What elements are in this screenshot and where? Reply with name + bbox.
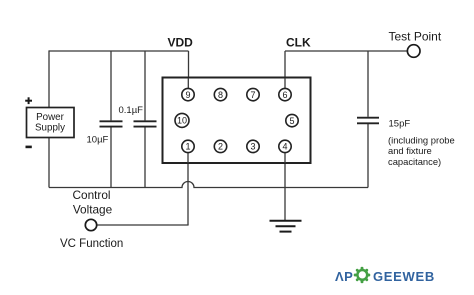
svg-text:2: 2 <box>218 142 223 152</box>
wire left drop to power supply <box>48 50 50 107</box>
label Control Voltage <box>72 188 112 217</box>
node VC terminal <box>85 219 96 230</box>
pin 1 <box>182 140 194 152</box>
svg-text:8: 8 <box>218 90 223 100</box>
label + (power supply positive) <box>25 97 32 104</box>
pin 4 <box>279 140 291 152</box>
pin 5 <box>286 114 298 126</box>
svg-text:3: 3 <box>250 142 255 152</box>
pin 10 <box>175 113 189 127</box>
svg-text:(including probe: (including probe <box>388 135 455 146</box>
wire bottom ground rail with hop over pin1 wire <box>49 182 368 188</box>
wire CLK rail to test point <box>285 50 407 52</box>
label Test Point <box>389 30 442 44</box>
svg-text:15pF: 15pF <box>389 119 411 130</box>
svg-text:4: 4 <box>282 142 287 152</box>
svg-text:VC Function: VC Function <box>60 238 123 250</box>
svg-text:Voltage: Voltage <box>73 203 113 217</box>
wire C3 bottom <box>367 124 369 188</box>
label VC Function <box>60 238 123 250</box>
svg-text:GEEWEB: GEEWEB <box>373 269 435 284</box>
pin 2 <box>214 140 226 152</box>
label 0.1uF <box>119 105 144 116</box>
pin 6 <box>279 88 291 100</box>
power supply PS1 <box>27 108 75 138</box>
capacitor C2 0.1uF <box>134 121 157 126</box>
wire C1 top tap <box>110 51 112 120</box>
pin 3 <box>247 140 259 152</box>
label - (power supply negative) <box>26 146 32 149</box>
wire C2 top tap <box>144 51 146 120</box>
wire pin 1 stub inside IC <box>187 152 189 163</box>
svg-text:9: 9 <box>185 90 190 100</box>
svg-text:Supply: Supply <box>35 123 65 134</box>
wire CLK drop to pin 6 <box>284 51 286 89</box>
pin 7 <box>247 88 259 100</box>
wire pin 4 to ground <box>284 152 286 220</box>
svg-text:6: 6 <box>282 90 287 100</box>
wire C3 top tap <box>367 51 369 117</box>
label 10uF <box>87 135 109 146</box>
wire VDD drop to pin 9 <box>188 51 190 89</box>
svg-text:7: 7 <box>250 90 255 100</box>
svg-text:5: 5 <box>289 116 294 126</box>
svg-text:Control: Control <box>72 188 110 202</box>
capacitor C1 10uF <box>100 121 123 126</box>
logo apogeeweb <box>335 267 435 284</box>
ground <box>270 221 302 232</box>
svg-text:and fixture: and fixture <box>388 145 432 156</box>
svg-text:capacitance): capacitance) <box>388 156 441 167</box>
wire C1 bottom <box>110 127 112 187</box>
wire VC terminal horizontal <box>97 224 189 226</box>
pin 9 <box>182 88 194 100</box>
svg-text:CLK: CLK <box>286 36 311 50</box>
label 15pF <box>389 119 411 130</box>
svg-text:10µF: 10µF <box>87 135 109 146</box>
label CLK <box>286 36 311 50</box>
node test point terminal <box>407 45 420 58</box>
wire pin 1 to VC node <box>187 152 189 225</box>
wire C2 bottom <box>144 127 146 187</box>
svg-text:0.1µF: 0.1µF <box>119 105 144 116</box>
svg-text:1: 1 <box>185 142 190 152</box>
IC U1 DUT package <box>163 78 311 164</box>
wire pin 9 stub inside IC <box>187 78 189 89</box>
wire VDD rail <box>49 50 189 52</box>
label including probe and fixture capacitance <box>388 135 455 167</box>
svg-text:ΛP: ΛP <box>335 269 353 284</box>
svg-text:VDD: VDD <box>168 36 194 50</box>
wire pin 6 stub inside IC <box>284 78 286 89</box>
svg-text:Test Point: Test Point <box>389 30 442 44</box>
wire pin 4 stub inside IC <box>284 152 286 163</box>
svg-text:Power: Power <box>36 112 65 123</box>
label VDD <box>168 36 194 50</box>
wire power supply to bottom rail <box>48 137 50 188</box>
svg-text:10: 10 <box>177 116 187 126</box>
pin 8 <box>214 88 226 100</box>
capacitor C3 15pF <box>357 118 379 124</box>
